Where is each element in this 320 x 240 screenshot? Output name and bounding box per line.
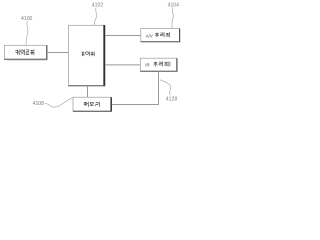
block B2: control unit (제어부) <box>68 25 105 86</box>
text: 키입력부 (glyph smudges) <box>15 50 34 56</box>
wire W1: key input -> control <box>47 52 69 54</box>
svg-text:IR: IR <box>145 63 149 68</box>
wire W2: control -> A/V output <box>105 35 141 37</box>
block B1: key input unit (키입력부) <box>4 45 48 60</box>
wire W6: riser up to IR output bottom <box>158 71 160 104</box>
leader for 4104 <box>172 8 173 29</box>
block B5: memory (메모리) <box>73 97 112 111</box>
block B3: A/V output unit (A/V 출력부) <box>141 29 180 43</box>
text: IR 출력부 <box>145 62 170 68</box>
wire W4: control -> memory (vertical) <box>87 86 89 97</box>
wire W3: control -> IR output <box>105 64 141 66</box>
block B4: IR output unit (IR 출력부) <box>140 58 177 71</box>
wire W5: memory -> riser (horizontal) <box>112 104 159 106</box>
text: 제어부 (glyph smudges) <box>82 52 95 57</box>
svg-text:4128: 4128 <box>166 96 178 102</box>
leader for 4102 <box>94 8 96 26</box>
text: A/V 출력부 <box>146 32 170 38</box>
leader for 4108 <box>45 98 73 107</box>
svg-text:4108: 4108 <box>33 101 45 107</box>
text: 메모리 (glyph smudges) <box>84 102 99 107</box>
svg-text:4102: 4102 <box>92 2 104 8</box>
leader for 4128 <box>160 80 171 95</box>
leader for 4100 <box>26 21 28 45</box>
svg-text:4100: 4100 <box>21 16 33 22</box>
svg-text:A/V: A/V <box>146 34 153 39</box>
svg-text:4104: 4104 <box>168 2 180 8</box>
